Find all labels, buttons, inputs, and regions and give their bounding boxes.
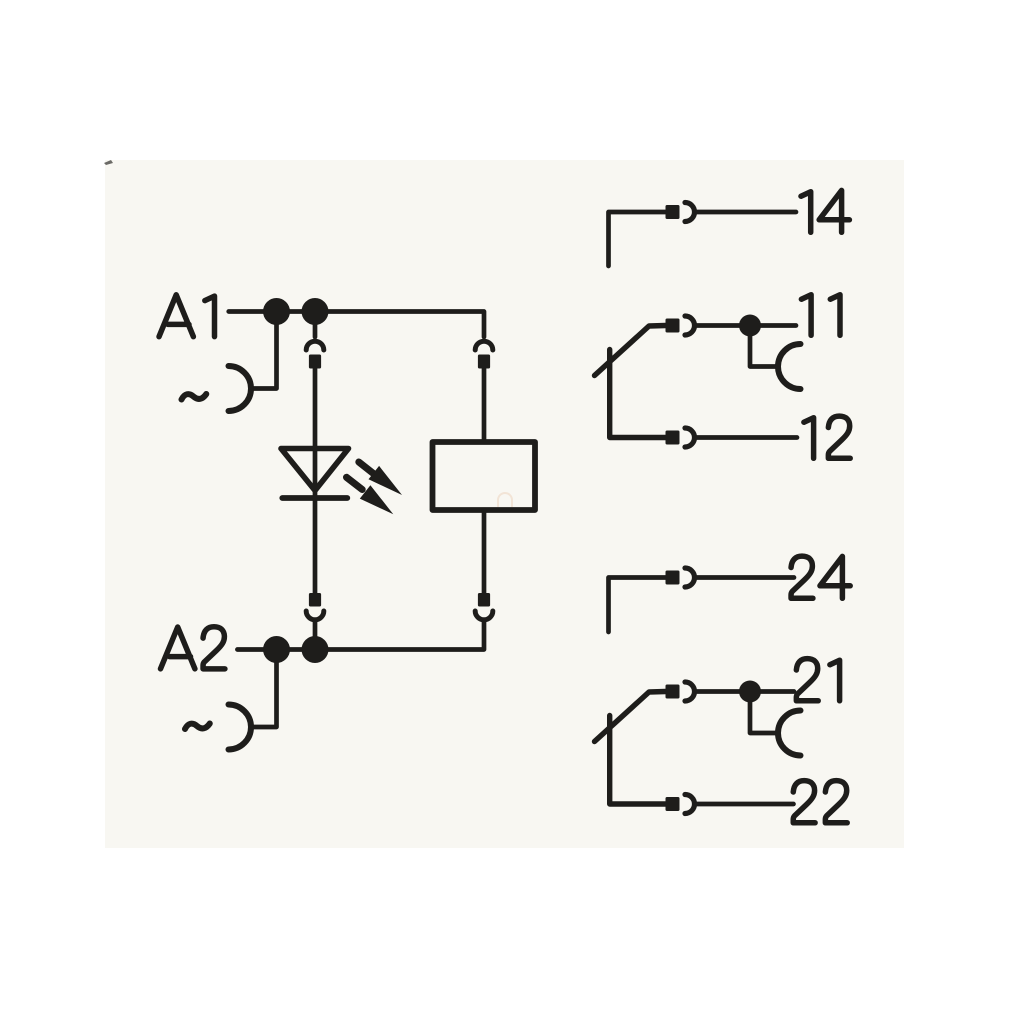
socket 21 (685, 682, 695, 701)
wire to label 24 (697, 575, 794, 580)
wire stub to A2 (313, 622, 318, 650)
junction dot A2 b (302, 636, 329, 663)
socket 11 (685, 316, 695, 335)
pivot post 12 (610, 350, 666, 438)
pin 14 (666, 205, 680, 219)
pin LED branch bottom (309, 593, 321, 607)
scan ghost arch (498, 493, 512, 507)
AC tilde A2 (185, 724, 210, 730)
socket 24 (685, 568, 695, 587)
wire 21 test tap (750, 692, 778, 734)
LED triangle (281, 449, 349, 491)
wire LED branch stub (313, 312, 318, 338)
contact lever 1 (595, 326, 666, 376)
label 22 (793, 781, 815, 823)
junction dot 21 (739, 681, 761, 703)
socket AC A1 (229, 366, 252, 411)
LED cathode bar (282, 495, 347, 501)
wire to label 12 (697, 435, 797, 440)
wire coil top (482, 369, 487, 443)
label 24 (791, 556, 813, 598)
junction dot A1 b (302, 298, 329, 325)
label 21 (796, 659, 818, 701)
LED arrow 1 (359, 462, 402, 495)
contact lever 2 (595, 692, 666, 742)
wire A1 drop from junction to AC socket (252, 312, 277, 389)
pin 11 (666, 319, 680, 333)
wire to label 21 (697, 689, 794, 694)
wire to label 14 (697, 210, 796, 215)
wire terminal 24 (609, 578, 666, 633)
junction dot 11 (739, 315, 761, 337)
label A2 (161, 627, 195, 669)
AC tilde A1 (182, 394, 207, 400)
wire A2 drop to AC socket (252, 650, 277, 728)
pivot post 22 (610, 716, 666, 805)
pin 12 (666, 431, 680, 445)
wire to label 11 (697, 323, 796, 328)
LED arrow 2 (347, 477, 394, 514)
junction dot A1 a (263, 298, 290, 325)
corner speck (104, 160, 113, 165)
test socket 11 (778, 344, 801, 389)
socket 22 (685, 795, 695, 814)
socket AC A2 (229, 705, 252, 750)
pin 21 (666, 685, 680, 699)
socket 12 (685, 428, 695, 447)
label 11 (801, 295, 811, 336)
label 14 (801, 192, 811, 233)
socket arc top LED branch (306, 341, 324, 350)
wire coil bottom (482, 510, 487, 593)
pin 24 (666, 571, 680, 585)
wire terminal 14 (609, 212, 666, 266)
label 12 (804, 418, 814, 459)
socket arc top relay coil branch (475, 341, 493, 350)
label A1 (159, 295, 193, 337)
pin LED branch top (309, 355, 321, 369)
socket 14 (685, 203, 695, 222)
pin coil branch bottom (478, 593, 490, 607)
pin 22 (666, 797, 680, 811)
socket arc bottom LED branch (306, 611, 324, 620)
wire A2 horizontal + right branch up (237, 622, 484, 650)
wire A1 horizontal + right branch down (229, 312, 484, 338)
wire LED vertical (313, 369, 318, 594)
wire 11 test tap (750, 326, 778, 367)
junction dot A2 a (263, 636, 290, 663)
relay coil K1 (433, 442, 536, 510)
test socket 21 (778, 711, 801, 756)
socket arc bottom relay coil branch (475, 611, 493, 620)
wire to label 22 (697, 802, 794, 807)
pin coil branch top (478, 355, 490, 369)
